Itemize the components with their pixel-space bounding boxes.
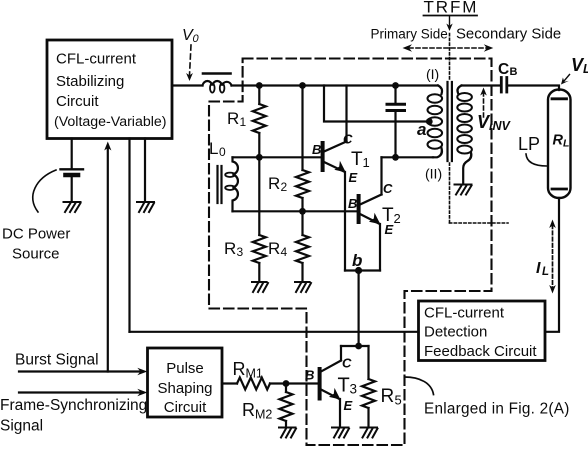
svg-text:TRFM: TRFM (424, 0, 479, 17)
wire lamp bottom to feedback (546, 198, 560, 332)
node b (345, 269, 380, 271)
Pulse Shaping Circuit box (148, 348, 223, 417)
label VL with arrow (571, 55, 588, 76)
resistor R4 (301, 211, 303, 235)
resistor R5 (367, 346, 369, 379)
svg-text:L: L (209, 139, 218, 158)
svg-text:C: C (498, 61, 509, 78)
svg-text:CFL-current: CFL-current (56, 51, 137, 68)
wire CB to lamp (507, 86, 559, 91)
svg-text:Stabilizing: Stabilizing (56, 73, 124, 90)
svg-text:Pulse: Pulse (166, 360, 204, 377)
svg-text:b: b (352, 251, 362, 270)
svg-text:R: R (227, 109, 239, 128)
battery (DC source) (71, 139, 73, 169)
svg-text:2: 2 (281, 180, 288, 194)
wire stabilizing box to ground (144, 139, 146, 202)
svg-text:2: 2 (394, 211, 401, 226)
node R2 / T2 base line junction (299, 208, 306, 215)
svg-text:R: R (224, 239, 236, 258)
wire feedback line (130, 331, 419, 333)
svg-text:T: T (338, 375, 350, 397)
node a (426, 118, 433, 125)
svg-text:E: E (344, 398, 353, 413)
label V0 (182, 27, 200, 45)
resistor R3 (258, 157, 260, 235)
svg-text:B: B (312, 142, 321, 157)
wire pulse box to RM1 (222, 382, 237, 384)
svg-text:L: L (563, 138, 569, 150)
svg-text:T: T (351, 149, 363, 170)
ground RM2 (279, 428, 296, 438)
wire burst branch up into stabilizing box (107, 147, 109, 372)
svg-text:5: 5 (395, 393, 402, 408)
capacitor (resonant) (394, 86, 396, 103)
ground R3 (252, 282, 268, 292)
label Secondary Side (456, 27, 561, 43)
label TRFM (424, 0, 479, 17)
svg-text:a: a (417, 120, 426, 139)
transformer TRFM primary winding (438, 86, 442, 95)
svg-text:C: C (383, 181, 393, 196)
label (I) (426, 66, 439, 82)
wire main rail (232, 84, 439, 86)
wire stabilizing box output to inductor (172, 84, 203, 86)
node RM junction (283, 380, 290, 387)
resistor RM1 (237, 378, 270, 390)
node R1 / base line junction (256, 154, 263, 161)
svg-text:I: I (536, 260, 541, 277)
svg-text:4: 4 (281, 245, 288, 259)
arrow frame-synchronizing signal (19, 391, 141, 393)
svg-text:LP: LP (518, 134, 540, 154)
svg-text:(II): (II) (425, 166, 442, 182)
svg-text:M2: M2 (255, 408, 272, 422)
wire RM1 to T3 base (270, 382, 318, 384)
svg-text:1: 1 (240, 115, 247, 129)
dashed boundary inverter/burst-switch region (209, 59, 492, 446)
svg-text:B: B (348, 196, 357, 211)
transistor T2 (357, 196, 361, 222)
svg-text:1: 1 (363, 155, 370, 170)
ground battery (64, 202, 81, 212)
svg-text:B: B (510, 66, 518, 78)
label Enlarged in Fig. 2(A) with pointer curve (424, 401, 570, 418)
svg-text:Frame-Synchronizing: Frame-Synchronizing (0, 397, 147, 414)
svg-text:L: L (583, 62, 588, 76)
transformer secondary winding (457, 86, 461, 94)
svg-text:T: T (382, 205, 394, 226)
svg-text:Burst Signal: Burst Signal (15, 352, 99, 369)
svg-text:E: E (349, 170, 358, 185)
ground R5 (361, 428, 378, 438)
svg-text:3: 3 (237, 245, 244, 259)
svg-text:Signal: Signal (0, 418, 43, 435)
ground stabilizing (137, 202, 154, 212)
svg-text:0: 0 (193, 33, 200, 45)
svg-text:R: R (233, 359, 246, 379)
svg-text:Circuit: Circuit (56, 93, 99, 110)
svg-text:L: L (542, 266, 549, 278)
label VINV with dashed arrow (483, 92, 485, 118)
svg-text:M1: M1 (246, 367, 263, 381)
node rail-R2 (299, 82, 306, 89)
svg-text:R: R (242, 400, 255, 420)
ground R4 (295, 282, 311, 292)
wire node a branch (324, 86, 428, 122)
svg-text:Feedback Circuit: Feedback Circuit (424, 343, 537, 360)
label Burst Signal (15, 352, 99, 369)
label Primary Side (371, 27, 448, 42)
label LP with pointer curve (518, 134, 540, 154)
svg-text:Secondary Side: Secondary Side (456, 27, 561, 43)
label Frame-Synchronizing Signal (0, 397, 147, 435)
CFL-current Detection Feedback Circuit box (419, 301, 546, 361)
label (II) (425, 166, 442, 182)
wire T2 collector to transformer primary bottom (382, 156, 434, 158)
svg-text:R: R (268, 239, 280, 258)
svg-text:(I): (I) (426, 66, 439, 82)
capacitor CB (500, 78, 503, 93)
wire T1 base line (233, 156, 321, 158)
label DC Power Source (2, 226, 70, 263)
dashed double arrow primary/secondary span (409, 47, 487, 49)
svg-text:R: R (381, 386, 395, 407)
node rail-capacitor (392, 82, 399, 89)
pointer curve DC source to battery (33, 170, 56, 212)
transistor T1 (321, 143, 325, 170)
svg-text:DC Power: DC Power (2, 226, 70, 243)
svg-text:(Voltage-Variable): (Voltage-Variable) (54, 114, 167, 130)
inductor L0 with core (209, 139, 226, 159)
dashed arrow V0 to wire (190, 45, 192, 75)
wire feedback up into stabilizing box (128, 139, 130, 332)
svg-text:Enlarged in Fig. 2(A): Enlarged in Fig. 2(A) (424, 401, 570, 418)
resistor R1 (258, 86, 260, 105)
svg-text:0: 0 (219, 145, 226, 159)
CFL-current Stabilizing Circuit box U10 (47, 40, 172, 139)
lamp LP (CFL tube) (548, 90, 571, 199)
node rail-R1 (256, 82, 263, 89)
svg-text:Circuit: Circuit (164, 399, 207, 416)
svg-text:Source: Source (12, 246, 60, 263)
svg-text:C: C (343, 132, 353, 147)
transformer core (446, 82, 448, 161)
svg-text:Primary Side: Primary Side (371, 27, 448, 42)
ground T3 emitter (332, 428, 349, 438)
ground transformer secondary (455, 185, 472, 195)
svg-text:R: R (553, 133, 564, 149)
resistor R2 (301, 86, 303, 171)
svg-text:Detection: Detection (424, 324, 487, 341)
arrow TRFM pointer (449, 16, 451, 25)
arrow burst signal (19, 370, 141, 372)
resistor RM2 (285, 384, 287, 393)
svg-text:3: 3 (350, 382, 358, 397)
dotted boundary line through transformer (449, 34, 451, 81)
node capacitor bottom junction (392, 154, 399, 161)
wire b node down to T3 (358, 271, 360, 347)
inductor (choke) with core (203, 72, 231, 75)
svg-text:Shaping: Shaping (157, 380, 212, 397)
transistor T3 (355, 343, 362, 350)
wire T2 base line (233, 210, 357, 212)
wire secondary top to CB (462, 84, 501, 86)
svg-text:C: C (342, 356, 352, 371)
svg-text:R: R (268, 174, 280, 193)
svg-text:CFL-current: CFL-current (424, 305, 505, 322)
label IL with dashed double arrow (552, 225, 554, 288)
